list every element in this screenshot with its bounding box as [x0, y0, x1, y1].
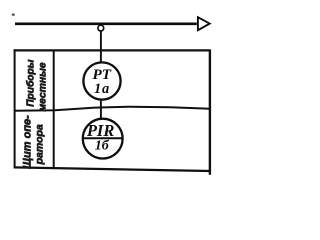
- row 1 label: Pribory mestnye (rotated): [25, 59, 49, 111]
- instrument circle PT 1a (local): [83, 62, 120, 99]
- diameter line of PIR circle: [82, 137, 123, 139]
- svg-text:PIR: PIR: [86, 121, 115, 140]
- instrument circle PIR 1b (panel): [83, 119, 123, 159]
- svg-text:Щит опе-: Щит опе-: [22, 115, 34, 169]
- table outer border: [14, 49, 211, 174]
- connection circle on pipe: [98, 25, 104, 31]
- svg-text:местные: местные: [38, 62, 49, 111]
- arrowhead: [198, 17, 210, 30]
- speck artifact: [12, 14, 15, 16]
- column divider: [53, 50, 55, 168]
- svg-text:1а: 1а: [94, 81, 110, 97]
- svg-text:ратора: ратора: [33, 124, 45, 165]
- wire: impulse line from pipe to instruments: [100, 30, 102, 120]
- row 2 label: Shchit operatora (rotated): [22, 115, 46, 169]
- pipe: flow line: [15, 22, 197, 25]
- svg-text:Приборы: Приборы: [25, 59, 37, 107]
- row divider: [14, 107, 210, 111]
- svg-text:1б: 1б: [95, 139, 110, 154]
